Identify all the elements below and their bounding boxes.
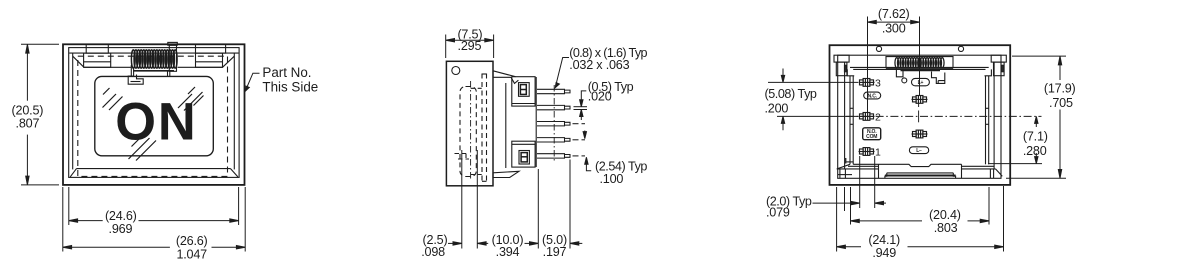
pin 3 — [537, 122, 570, 126]
svg-text:.197: .197 — [543, 245, 567, 259]
bottom contact block — [512, 141, 535, 167]
third rect walls — [844, 62, 846, 169]
dimension (26.6)/1.047 — [63, 246, 245, 249]
spring left wire — [130, 65, 132, 76]
panel side slot bottom left — [845, 161, 853, 163]
mounting tab top-right — [196, 44, 226, 53]
spring lower bar — [133, 70, 174, 72]
panel corner notch left — [847, 69, 854, 75]
extension line inner — [844, 187, 846, 211]
svg-text:.949: .949 — [872, 246, 896, 260]
svg-text:.300: .300 — [882, 21, 906, 35]
side view bottom dimensions — [448, 150, 582, 249]
svg-text:(20.4): (20.4) — [929, 208, 961, 222]
svg-text:(24.6): (24.6) — [105, 209, 137, 223]
latch link right — [167, 71, 169, 76]
miter diagonal top-right — [223, 56, 235, 67]
N.C. oval — [864, 92, 881, 99]
pin 2 — [537, 105, 570, 109]
panel top edge double — [850, 66, 989, 68]
svg-text:(17.9): (17.9) — [1044, 82, 1076, 96]
dim (2.5) arrow — [448, 242, 462, 244]
top mounting circles — [876, 46, 881, 51]
bezel rim inner top edge — [84, 66, 132, 68]
flange hole — [452, 67, 460, 75]
miter diagonal bottom-left — [70, 169, 76, 177]
top contact block — [512, 77, 535, 106]
extension line flange hidden left — [461, 150, 463, 249]
spring right bracket — [932, 72, 945, 84]
L+ oval — [912, 78, 930, 85]
svg-text:.705: .705 — [1049, 96, 1073, 110]
spring coil front — [131, 50, 177, 68]
center upper screw — [912, 98, 928, 100]
svg-text:(24.1): (24.1) — [868, 233, 900, 247]
svg-text:.394: .394 — [496, 245, 520, 259]
bezel rim left wall — [72, 53, 74, 169]
svg-text:.079: .079 — [766, 206, 790, 220]
bezel recess bottom edge — [77, 168, 231, 170]
svg-text:.020: .020 — [588, 90, 612, 104]
pin 1 — [537, 89, 570, 93]
(20.4) dim line — [851, 220, 923, 222]
dim (10.0) arrows — [477, 242, 488, 244]
bottom rail strip — [887, 172, 954, 174]
terminal screws — [859, 79, 928, 156]
panel side slot left — [850, 107, 853, 109]
display window — [95, 76, 214, 155]
extension line 20.4 left — [850, 187, 852, 225]
bottom latch wedge — [493, 171, 519, 177]
extension line 20.4 right — [988, 187, 990, 225]
bottom-left panel miter diagonal — [837, 164, 850, 169]
hidden slider dashed rounded rect — [460, 87, 476, 177]
bezel rim right wall — [233, 53, 235, 169]
terminal 1 screw — [859, 151, 875, 153]
spring lower bar — [901, 69, 941, 71]
hidden opening dashed rect — [78, 56, 228, 176]
dimension (0.5) Typ/.020 — [574, 91, 588, 120]
spring coil back — [895, 58, 944, 68]
pin 3 pitch dash — [573, 123, 579, 125]
extension line pin tips — [569, 160, 571, 249]
svg-text:.280: .280 — [1023, 144, 1047, 158]
svg-text:Part No.: Part No. — [262, 65, 311, 80]
pin row centerline dash-dot — [553, 85, 555, 163]
pivot circle — [902, 78, 907, 83]
svg-text:(5.08) Typ: (5.08) Typ — [765, 87, 817, 101]
svg-text:L−: L− — [916, 148, 922, 154]
extension line hidden right — [476, 150, 478, 249]
top-right tab — [991, 55, 1006, 62]
dimension (7.1)/.280 — [988, 116, 1042, 163]
extension line body face — [537, 169, 539, 249]
dimension (24.6)/.969 — [63, 187, 245, 252]
dimension (17.9)/.705 — [1006, 56, 1066, 178]
bottom shelf line — [837, 168, 879, 170]
spring plate — [886, 57, 953, 69]
svg-text:.032 x .063: .032 x .063 — [569, 58, 629, 72]
top latch wedge — [493, 71, 516, 78]
svg-text:.807: .807 — [16, 117, 40, 131]
latch hook left — [128, 74, 143, 85]
center mark vertical bar — [918, 111, 920, 123]
svg-text:.969: .969 — [109, 222, 133, 236]
svg-text:(26.6): (26.6) — [176, 234, 208, 248]
bezel inner rect — [69, 48, 239, 178]
body rear face — [535, 77, 537, 167]
dimension (7.5)/.295 — [446, 35, 494, 59]
hidden dashed wall lines — [481, 74, 483, 182]
pins side view — [537, 85, 585, 163]
spring anchor post — [169, 45, 176, 71]
svg-text:COM: COM — [866, 134, 877, 140]
dimension (5.08) Typ/.200 — [768, 69, 858, 131]
top-left tab — [834, 55, 849, 62]
panel side slot right — [986, 107, 989, 109]
bottom-right miter diagonal — [996, 169, 1003, 176]
mounting tab top-left — [86, 44, 108, 53]
svg-text:.098: .098 — [421, 245, 445, 259]
extension line 24.1 right — [1003, 186, 1005, 252]
svg-text:This Side: This Side — [262, 80, 318, 95]
(24.1) dim line — [837, 246, 861, 248]
miter diagonal top-left — [73, 56, 84, 67]
dim (5.0) arrow — [570, 242, 582, 244]
svg-text:(20.5): (20.5) — [12, 104, 44, 118]
svg-text:(7.1): (7.1) — [1023, 129, 1048, 143]
dimension (20.5)/.807 — [21, 44, 59, 185]
extension line 24.1 left — [836, 187, 838, 252]
outer rect — [830, 45, 1011, 185]
terminal 3 screw — [859, 81, 875, 83]
N.O./COM box — [863, 128, 881, 140]
svg-text:1: 1 — [875, 147, 881, 159]
svg-text:3: 3 — [875, 78, 881, 90]
bottom-left corner verticals — [839, 169, 841, 178]
panel bottom edge with notch — [853, 164, 961, 166]
svg-text:.200: .200 — [765, 102, 789, 116]
flange rect — [446, 61, 493, 186]
svg-text:L+: L+ — [918, 80, 924, 86]
center lower screw — [912, 133, 928, 135]
bezel rim top line — [69, 52, 238, 54]
pin 4 pitch dash — [573, 139, 579, 141]
dimension (2.54) Typ/.100 — [583, 131, 591, 171]
horizontal centerline dash-dot — [846, 101, 1042, 123]
(2.0) leader and arrows — [813, 202, 852, 204]
miter diagonal bottom-right — [231, 169, 238, 177]
svg-text:1.047: 1.047 — [176, 247, 207, 261]
extension line terminal1 left — [859, 156, 861, 208]
pin 5 pitch dash — [573, 155, 579, 157]
svg-text:N.C.: N.C. — [868, 93, 878, 99]
back view bottom dimensions — [813, 156, 1004, 252]
pin 4 — [537, 138, 570, 142]
dimension (0.8) x (1.6) Typ with leader — [555, 58, 569, 88]
svg-text:ON: ON — [115, 93, 197, 151]
extension line terminal1 right — [874, 156, 876, 208]
spring anchor cap — [168, 42, 178, 45]
hidden latch hook dashes — [455, 154, 470, 160]
svg-text:.100: .100 — [600, 172, 624, 186]
glass reflection hatch marks — [103, 87, 204, 161]
svg-text:2: 2 — [875, 112, 881, 124]
second rect — [838, 55, 1001, 178]
bottom-right corner verticals — [989, 169, 991, 178]
svg-text:.295: .295 — [458, 39, 482, 53]
pin 5 — [537, 154, 570, 158]
label Part No. This Side with leader arrow — [245, 73, 259, 91]
flange centerline dash-dot — [470, 81, 472, 179]
svg-text:.803: .803 — [934, 221, 958, 235]
body front face — [505, 83, 507, 168]
panel corner notch right — [985, 69, 992, 75]
dimension (7.62)/.300 — [868, 17, 920, 113]
bezel outer rect — [63, 44, 245, 185]
spring left step — [896, 68, 903, 77]
inner panel walls double — [849, 76, 851, 165]
svg-text:(7.62): (7.62) — [878, 7, 910, 21]
terminal 2 screw — [859, 115, 875, 117]
L- oval — [909, 147, 928, 154]
